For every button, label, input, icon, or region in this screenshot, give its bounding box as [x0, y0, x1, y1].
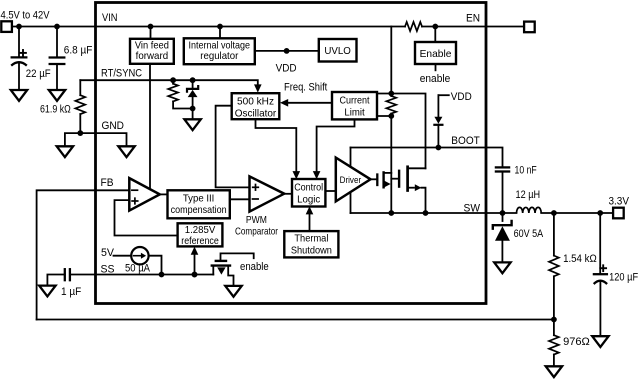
svg-text:Shutdown: Shutdown: [291, 244, 332, 256]
svg-text:5V: 5V: [101, 247, 115, 259]
svg-text:4.5V to 42V: 4.5V to 42V: [1, 9, 51, 21]
svg-text:60V 5A: 60V 5A: [514, 228, 544, 240]
svg-text:3.3V: 3.3V: [609, 196, 630, 208]
svg-text:61.9 kΩ: 61.9 kΩ: [40, 104, 71, 116]
svg-text:120 µF: 120 µF: [609, 271, 638, 283]
svg-text:enable: enable: [240, 261, 269, 273]
svg-text:GND: GND: [102, 120, 125, 132]
svg-text:10 nF: 10 nF: [515, 164, 537, 176]
svg-text:Driver: Driver: [340, 175, 362, 186]
svg-text:SS: SS: [101, 263, 115, 275]
svg-text:1.54 kΩ: 1.54 kΩ: [563, 253, 597, 265]
svg-text:12 µH: 12 µH: [516, 189, 541, 201]
svg-text:EN: EN: [466, 13, 480, 25]
svg-text:Comparator: Comparator: [235, 226, 278, 238]
svg-text:500 kHz: 500 kHz: [237, 95, 274, 107]
svg-text:Limit: Limit: [344, 107, 364, 119]
svg-text:RT/SYNC: RT/SYNC: [101, 68, 142, 80]
svg-text:976Ω: 976Ω: [563, 336, 590, 348]
svg-text:Current: Current: [340, 94, 370, 106]
svg-text:Logic: Logic: [297, 193, 320, 205]
svg-text:1 µF: 1 µF: [61, 286, 82, 298]
svg-text:forward: forward: [136, 50, 169, 62]
svg-text:Enable: Enable: [420, 48, 452, 60]
svg-text:50 µA: 50 µA: [125, 262, 151, 274]
svg-text:regulator: regulator: [200, 50, 238, 62]
svg-text:22 µF: 22 µF: [26, 68, 51, 80]
svg-text:Control: Control: [294, 181, 323, 193]
svg-text:Thermal: Thermal: [294, 233, 328, 245]
svg-text:FB: FB: [101, 177, 114, 189]
svg-text:Oscillator: Oscillator: [235, 108, 277, 120]
svg-text:reference: reference: [181, 235, 219, 247]
svg-text:6.8 µF: 6.8 µF: [64, 44, 93, 56]
svg-text:compensation: compensation: [171, 204, 227, 216]
svg-text:SW: SW: [464, 203, 481, 215]
svg-text:Freq. Shift: Freq. Shift: [284, 82, 327, 94]
svg-text:VDD: VDD: [451, 91, 472, 103]
svg-text:Type III: Type III: [183, 192, 215, 204]
svg-text:VIN: VIN: [102, 12, 118, 24]
svg-text:PWM: PWM: [246, 214, 267, 226]
svg-text:enable: enable: [420, 73, 451, 85]
svg-text:UVLO: UVLO: [324, 45, 351, 57]
svg-text:BOOT: BOOT: [451, 135, 480, 147]
svg-text:VDD: VDD: [276, 63, 297, 75]
